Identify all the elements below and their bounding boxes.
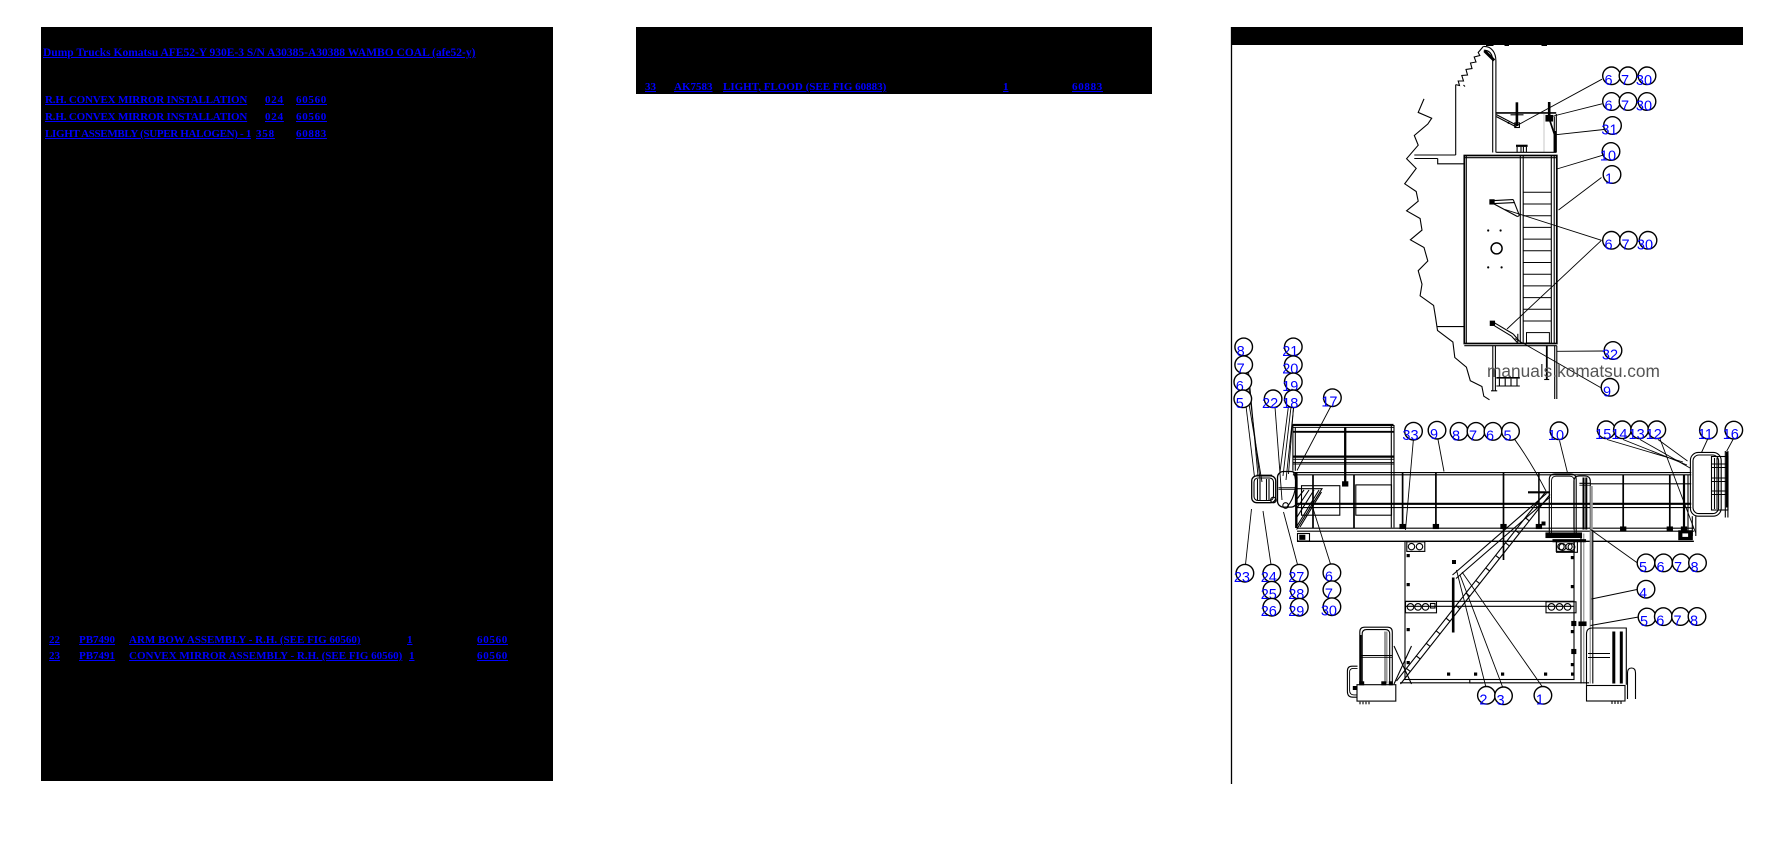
- svg-text:7: 7: [1621, 99, 1629, 115]
- svg-text:18: 18: [1282, 396, 1298, 412]
- svg-text:14: 14: [1611, 427, 1627, 443]
- svg-text:1: 1: [1536, 692, 1544, 708]
- svg-text:6: 6: [1604, 237, 1612, 253]
- svg-text:5: 5: [1640, 614, 1648, 630]
- svg-text:22: 22: [1262, 396, 1278, 412]
- svg-text:10: 10: [1600, 149, 1616, 165]
- svg-text:15: 15: [1595, 427, 1611, 443]
- svg-text:manuals.komatsu.com: manuals.komatsu.com: [1487, 361, 1660, 381]
- svg-text:17: 17: [1321, 395, 1337, 411]
- svg-text:7: 7: [1621, 237, 1629, 253]
- svg-text:31: 31: [1601, 123, 1617, 139]
- svg-text:8: 8: [1690, 560, 1698, 576]
- svg-text:7: 7: [1673, 614, 1681, 630]
- svg-text:7: 7: [1674, 560, 1682, 576]
- svg-text:30: 30: [1637, 237, 1653, 253]
- svg-text:9: 9: [1430, 427, 1438, 443]
- svg-text:1: 1: [1605, 172, 1613, 188]
- svg-text:26: 26: [1261, 604, 1277, 620]
- svg-text:7: 7: [1621, 73, 1629, 89]
- svg-text:13: 13: [1629, 427, 1645, 443]
- svg-text:4: 4: [1639, 586, 1647, 602]
- svg-text:9: 9: [1603, 384, 1611, 400]
- svg-text:8: 8: [1690, 614, 1698, 630]
- svg-text:5: 5: [1236, 396, 1244, 412]
- svg-text:30: 30: [1321, 604, 1337, 620]
- svg-text:10: 10: [1548, 428, 1564, 444]
- svg-text:8: 8: [1452, 428, 1460, 444]
- svg-text:16: 16: [1723, 427, 1739, 443]
- svg-text:2: 2: [1479, 692, 1487, 708]
- svg-text:6: 6: [1656, 614, 1664, 630]
- svg-text:3: 3: [1496, 693, 1504, 709]
- svg-text:23: 23: [1234, 570, 1250, 586]
- svg-text:7: 7: [1469, 428, 1477, 444]
- svg-text:5: 5: [1503, 428, 1511, 444]
- svg-text:6: 6: [1657, 560, 1665, 576]
- svg-text:5: 5: [1639, 560, 1647, 576]
- svg-text:6: 6: [1486, 428, 1494, 444]
- svg-text:12: 12: [1646, 427, 1662, 443]
- svg-text:29: 29: [1288, 604, 1304, 620]
- svg-text:6: 6: [1604, 99, 1612, 115]
- svg-text:6: 6: [1604, 73, 1612, 89]
- svg-text:30: 30: [1636, 73, 1652, 89]
- svg-text:30: 30: [1636, 99, 1652, 115]
- svg-text:33: 33: [1402, 428, 1418, 444]
- svg-text:11: 11: [1698, 427, 1713, 443]
